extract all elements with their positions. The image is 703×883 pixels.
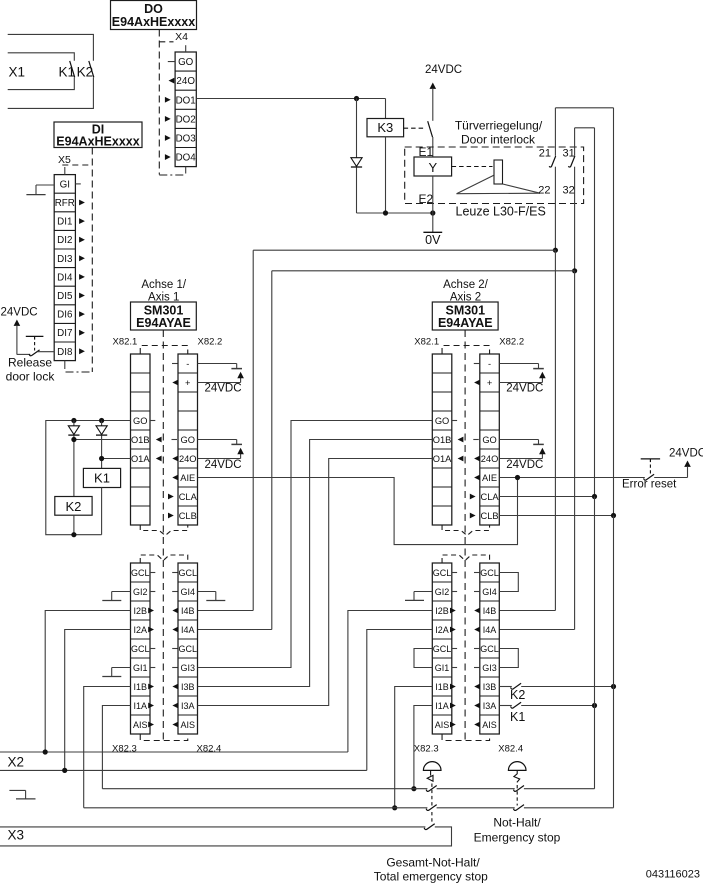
- svg-text:GCL: GCL: [131, 644, 150, 654]
- arrow pin DI7: [79, 330, 85, 336]
- label Error reset: [622, 479, 677, 491]
- pin arrow O1A axis 2: [458, 456, 464, 462]
- svg-text:DI3: DI3: [57, 254, 73, 265]
- svg-text:X4: X4: [175, 31, 188, 43]
- connector X1 loop inner wire: [8, 53, 75, 90]
- svg-text:I2B: I2B: [435, 606, 449, 616]
- reference bar GI2 axis2: [405, 592, 432, 601]
- svg-text:CLB: CLB: [179, 511, 197, 521]
- terminal strip X82.4 axis 1: [178, 563, 198, 734]
- wire DO1 to K3: [196, 98, 385, 100]
- wire axis2 GO to axis1 GI3: [198, 421, 433, 668]
- contact K3 in 24VDC line: [404, 121, 433, 137]
- wire I1B axis2 to emergency row2: [395, 687, 433, 808]
- supply 24VDC plus axis 1: [198, 372, 244, 395]
- svg-text:I1A: I1A: [435, 701, 449, 711]
- pin arrow I4A X82.4 axis 2: [474, 627, 480, 633]
- labels X82.1 X82.2 axis 2: [414, 337, 524, 348]
- pin tick GI4 X82.4 axis 2: [474, 591, 479, 593]
- emergency row2 wire: [84, 807, 614, 809]
- mushroom button total emergency stop: [423, 762, 441, 824]
- svg-text:+: +: [487, 378, 492, 388]
- svg-text:K3: K3: [377, 120, 393, 135]
- relay coil K1: [83, 468, 120, 534]
- label Achse 2 / Axis 2: [443, 279, 489, 304]
- labels X82.3 X82.4 axis 1: [112, 744, 221, 755]
- supply 24VDC error reset: [669, 448, 703, 478]
- pin tick GI2 X82.3 axis 1: [150, 591, 155, 593]
- svg-text:I3B: I3B: [483, 682, 497, 692]
- pin arrow I3A X82.4 axis 2: [474, 703, 480, 709]
- svg-text:DI7: DI7: [57, 328, 72, 339]
- svg-text:Achse 2/: Achse 2/: [443, 279, 489, 291]
- module SM301 E94AYAE axis 1: [131, 302, 197, 330]
- diode V2: [68, 421, 79, 497]
- wire I2B axis1 to X2: [45, 611, 130, 753]
- svg-text:043116023: 043116023: [646, 869, 700, 881]
- arrow pin DI5: [79, 293, 85, 299]
- svg-text:GO: GO: [435, 416, 449, 426]
- svg-text:GI2: GI2: [435, 587, 450, 597]
- pin arrow I2B X82.3 axis 1: [148, 608, 154, 614]
- label Tuerverriegelung Door interlock: [455, 119, 543, 147]
- svg-text:GO: GO: [133, 416, 147, 426]
- contact row2 button2: [514, 805, 525, 811]
- svg-text:24O: 24O: [176, 76, 195, 87]
- wire CLA axis2 to loop B: [499, 496, 594, 498]
- module SM301 E94AYAE axis 2: [432, 302, 498, 330]
- pin tick GO X82.1 axis 1: [150, 420, 155, 422]
- pin tick GI3 X82.4 axis 1: [172, 667, 177, 669]
- svg-text:K2: K2: [77, 65, 94, 80]
- svg-text:DI5: DI5: [57, 291, 73, 302]
- svg-text:24VDC: 24VDC: [204, 459, 241, 471]
- svg-text:CLA: CLA: [481, 492, 500, 502]
- svg-text:GI2: GI2: [133, 587, 148, 597]
- bridge GCL-GI3 axis2: [499, 649, 518, 668]
- pin arrow I1A X82.3 axis 1: [148, 703, 154, 709]
- wire safety loop B right leg: [594, 128, 596, 497]
- junction I1B row2: [392, 805, 397, 810]
- wire axis2 O1A to axis1 I3A: [198, 459, 433, 706]
- svg-text:X82.2: X82.2: [499, 337, 524, 348]
- pin arrow O1B axis 1: [156, 437, 162, 443]
- pin tick GCL X82.3 axis 2: [452, 648, 457, 650]
- svg-text:GI: GI: [60, 179, 70, 190]
- dashed centre line axis 1: [162, 330, 164, 740]
- relay coil K3: [367, 99, 404, 214]
- svg-text:GI4: GI4: [180, 587, 195, 597]
- dashed outline bottom X82.3/X82.4 axis 2: [442, 734, 490, 741]
- svg-text:AIS: AIS: [180, 720, 195, 730]
- svg-text:Türverriegelung/: Türverriegelung/: [455, 119, 543, 133]
- svg-text:DO2: DO2: [176, 114, 196, 125]
- pin arrow AIS X82.3 axis 1: [148, 722, 154, 728]
- svg-text:Door interlock: Door interlock: [461, 133, 536, 147]
- svg-text:32: 32: [563, 185, 575, 197]
- pin arrow I1B X82.3 axis 1: [148, 684, 154, 690]
- svg-text:Y: Y: [428, 160, 437, 175]
- arrow pin RFR: [79, 200, 85, 206]
- svg-text:K2: K2: [65, 499, 81, 514]
- bus X2 wire a: [0, 751, 348, 753]
- dashed outline bottom X82.3/X82.4 axis 1: [140, 734, 188, 741]
- label Leuze L30-F/ES: [456, 205, 546, 219]
- svg-text:GCL: GCL: [433, 568, 452, 578]
- wire 22 leg to axis2 I4B: [499, 250, 555, 610]
- supply 24VDC 24O axis 1: [198, 448, 244, 471]
- pin tick GI1 X82.3 axis 2: [452, 667, 457, 669]
- pin arrow AIS X82.3 axis 2: [450, 722, 456, 728]
- terminal strip X82.3 axis 1: [131, 563, 151, 734]
- contact K1: [59, 61, 76, 80]
- svg-text:Error reset: Error reset: [622, 479, 677, 491]
- svg-text:I4B: I4B: [483, 606, 497, 616]
- dashed module boundary X4: [159, 30, 184, 176]
- relay coil K2: [55, 497, 92, 535]
- junction AIE: [515, 475, 520, 480]
- svg-text:I1A: I1A: [133, 701, 147, 711]
- label Release door lock: [6, 356, 56, 384]
- svg-text:DI2: DI2: [57, 235, 72, 246]
- supply tap minus axis 1: [198, 364, 243, 369]
- dashed break below X82.1/X82.2 axis 2: [442, 525, 490, 536]
- svg-text:GI4: GI4: [482, 587, 497, 597]
- svg-text:O1B: O1B: [433, 435, 452, 445]
- svg-text:0V: 0V: [425, 233, 441, 247]
- pin tick GCL X82.3 axis 2: [452, 572, 457, 574]
- svg-text:E94AxHExxxx: E94AxHExxxx: [112, 15, 195, 29]
- svg-text:31: 31: [563, 148, 575, 160]
- reference bar near X2: [9, 790, 35, 799]
- junction K3 rail: [383, 210, 388, 215]
- svg-text:O1A: O1A: [131, 454, 150, 464]
- wire I1A axis2 to emergency row1: [414, 706, 432, 789]
- pushbutton Release door lock: [17, 336, 54, 355]
- svg-text:X82.1: X82.1: [414, 337, 439, 348]
- junction X2a axis1: [43, 749, 48, 754]
- arrow pin 24O: [169, 78, 175, 84]
- supply 24VDC door circuit: [425, 64, 462, 121]
- bridge GCL-GI1 axis2: [414, 649, 432, 668]
- svg-text:X82.3: X82.3: [414, 744, 439, 755]
- wire I1A axis1 to emergency row1: [102, 706, 130, 789]
- solenoid Y with terminals E1 E2: [414, 145, 452, 206]
- contact Error reset: [644, 474, 688, 480]
- junction GO diode2: [99, 418, 104, 423]
- terminal strip X82.2 axis 1: [178, 354, 198, 525]
- svg-text:Emergency stop: Emergency stop: [474, 831, 561, 845]
- svg-text:DO4: DO4: [176, 153, 197, 164]
- supply tap GO axis 2: [499, 440, 544, 445]
- svg-text:Gesamt-Not-Halt/: Gesamt-Not-Halt/: [386, 856, 480, 870]
- svg-text:X5: X5: [58, 154, 71, 166]
- svg-text:I3A: I3A: [181, 701, 195, 711]
- svg-text:I4A: I4A: [483, 625, 497, 635]
- label Gesamt-Not-Halt Total emergency stop: [374, 856, 488, 883]
- label Not-Halt Emergency stop: [474, 816, 561, 845]
- svg-text:GI1: GI1: [133, 663, 148, 673]
- reference bar at GI: [26, 185, 54, 195]
- svg-text:Leuze L30-F/ES: Leuze L30-F/ES: [456, 205, 546, 219]
- svg-text:21: 21: [539, 148, 551, 160]
- pin tick GCL X82.3 axis 1: [150, 648, 155, 650]
- arrow pin DO1: [165, 97, 171, 103]
- svg-text:24O: 24O: [179, 454, 197, 464]
- junction tap contact 22: [553, 248, 558, 253]
- svg-text:Not-Halt/: Not-Halt/: [493, 816, 541, 830]
- bus X2 wire b: [0, 769, 367, 771]
- junction X2b axis1: [62, 768, 67, 773]
- junction K2 return rail: [71, 532, 76, 537]
- terminal strip X82.1 axis 1: [131, 354, 151, 525]
- door interlock dashed enclosure: [405, 147, 584, 204]
- document number: [646, 869, 700, 881]
- svg-text:DO: DO: [144, 2, 163, 16]
- svg-text:24VDC: 24VDC: [204, 383, 241, 395]
- pin tick GCL X82.4 axis 2: [474, 648, 479, 650]
- supply tap GO axis 1: [198, 440, 243, 445]
- svg-text:GCL: GCL: [178, 568, 197, 578]
- svg-text:-: -: [186, 359, 189, 369]
- arrow pin DO3: [165, 135, 171, 141]
- svg-text:AIS: AIS: [482, 720, 497, 730]
- wire I1B axis1 to emergency row2: [84, 687, 131, 808]
- contact 31-32: [563, 148, 575, 197]
- svg-text:K1: K1: [59, 65, 76, 80]
- svg-text:24VDC: 24VDC: [506, 383, 543, 395]
- pin arrow I4A X82.4 axis 1: [172, 627, 178, 633]
- pin arrow I3B X82.4 axis 1: [172, 684, 178, 690]
- junction I3A loopB: [592, 703, 597, 708]
- pin arrow I2B X82.3 axis 2: [450, 608, 456, 614]
- svg-text:GO: GO: [482, 435, 496, 445]
- svg-text:GI3: GI3: [180, 663, 195, 673]
- svg-text:I3B: I3B: [181, 682, 195, 692]
- pin tick GCL X82.4 axis 2: [474, 572, 479, 574]
- svg-text:GI3: GI3: [482, 663, 497, 673]
- svg-text:24O: 24O: [481, 454, 499, 464]
- wire O1B axis1: [74, 439, 131, 441]
- svg-text:GCL: GCL: [433, 644, 452, 654]
- pin arrow AIS X82.4 axis 1: [172, 722, 178, 728]
- svg-text:I2A: I2A: [435, 625, 449, 635]
- wire safety loop A right leg: [613, 108, 615, 516]
- pin arrow O1A axis 1: [156, 456, 162, 462]
- pin tick GI1 X82.3 axis 1: [150, 667, 155, 669]
- svg-text:GCL: GCL: [480, 568, 499, 578]
- svg-text:-: -: [488, 359, 491, 369]
- ground 0V: [423, 232, 442, 247]
- pin tick minus X82.2 axis 1: [172, 363, 178, 365]
- svg-text:CLA: CLA: [179, 492, 198, 502]
- svg-text:DI8: DI8: [57, 347, 73, 358]
- arrow pin DO2: [165, 116, 171, 122]
- svg-text:Release: Release: [8, 356, 52, 370]
- svg-text:X2: X2: [8, 755, 25, 770]
- pin arrow AIE axis 2: [474, 475, 480, 481]
- svg-text:CLB: CLB: [481, 511, 499, 521]
- svg-text:DO1: DO1: [176, 95, 196, 106]
- pin arrow CLA axis 2: [470, 494, 476, 500]
- pin tick GI4 X82.4 axis 1: [172, 591, 177, 593]
- svg-text:Total emergency stop: Total emergency stop: [374, 870, 488, 883]
- pin arrow I1A X82.3 axis 2: [450, 703, 456, 709]
- module DO E94AxHExxxx: [111, 1, 197, 30]
- svg-text:X82.4: X82.4: [498, 744, 523, 755]
- wire 0V drop: [432, 213, 434, 232]
- dashed break above X82.3/X82.4 axis 2: [442, 555, 490, 563]
- labels X82.3 X82.4 axis 2: [414, 744, 523, 755]
- pin arrow I2A X82.3 axis 2: [450, 627, 456, 633]
- bus X3 wire a with total emergency contact: [0, 824, 452, 846]
- contact 21-22: [538, 148, 555, 197]
- wire I3A axis2 with contact K1: [499, 702, 594, 724]
- pin tick GI2 X82.3 axis 2: [452, 591, 457, 593]
- pin arrow I2A X82.3 axis 1: [148, 627, 154, 633]
- label X1: [9, 65, 26, 80]
- label X5: [58, 154, 71, 166]
- svg-text:X82.1: X82.1: [113, 337, 138, 348]
- svg-text:+: +: [185, 378, 190, 388]
- wire loop B lower leg: [594, 497, 596, 789]
- supply tap minus axis 2: [499, 364, 544, 369]
- pin arrow CLB axis 2: [470, 513, 476, 519]
- wire safety loop B top: [575, 128, 595, 271]
- pin tick minus X82.2 axis 2: [474, 363, 480, 365]
- pin tick GCL X82.3 axis 1: [150, 572, 155, 574]
- contact row1 button1: [426, 786, 437, 792]
- svg-text:O1B: O1B: [131, 435, 150, 445]
- svg-text:22: 22: [538, 185, 550, 197]
- terminal strip X4: [168, 45, 197, 173]
- svg-text:I2A: I2A: [133, 625, 147, 635]
- svg-text:AIS: AIS: [435, 720, 450, 730]
- pin arrow 24O axis 2: [474, 456, 480, 462]
- junction O1A diode2 coil K1: [99, 456, 104, 461]
- svg-text:24VDC: 24VDC: [669, 448, 703, 460]
- arrow pin DI1: [79, 218, 85, 224]
- terminal strip X82.1 axis 2: [432, 354, 452, 525]
- svg-text:I2B: I2B: [133, 606, 147, 616]
- connector X1 loop outer wire: [8, 34, 94, 108]
- terminal strip X5: [54, 167, 81, 369]
- svg-text:GO: GO: [181, 435, 195, 445]
- pin tick GO X82.2 axis 2: [473, 439, 479, 441]
- wire GO axis1 to coil return rail: [46, 421, 131, 535]
- pushbutton cap error reset: [641, 459, 660, 474]
- pin tick GCL X82.4 axis 1: [172, 648, 177, 650]
- wire K3 bottom rail to 0V node: [357, 212, 433, 214]
- svg-text:DI6: DI6: [57, 310, 73, 321]
- svg-text:GO: GO: [178, 57, 194, 68]
- svg-text:X82.3: X82.3: [112, 744, 137, 755]
- arrow pin DI6: [79, 311, 85, 317]
- pin tick GI3 X82.4 axis 2: [474, 667, 479, 669]
- svg-text:X1: X1: [9, 65, 26, 80]
- terminal strip X82.3 axis 2: [432, 563, 452, 734]
- bridge GCL-GI4 axis2: [499, 573, 518, 592]
- pin arrow AIE axis 1: [172, 475, 178, 481]
- svg-text:K1: K1: [94, 471, 110, 486]
- supply 24VDC for release switch: [1, 307, 38, 355]
- pin tick GCL X82.4 axis 1: [172, 572, 177, 574]
- wire loop A lower leg: [613, 516, 615, 808]
- wire 32 leg to axis2 I4A: [499, 271, 574, 630]
- svg-text:I1B: I1B: [133, 682, 147, 692]
- diode across K3: [351, 99, 362, 214]
- svg-text:Achse 1/: Achse 1/: [141, 279, 187, 291]
- reference bar GI4 axis1: [198, 592, 226, 601]
- arrow pin DI4: [79, 274, 85, 280]
- svg-text:DI4: DI4: [57, 272, 73, 283]
- junction O1B diode1 coil K2: [71, 437, 76, 442]
- diode V3: [96, 421, 107, 469]
- supply 24VDC 24O axis 2: [499, 448, 545, 471]
- junction I1A row1: [411, 786, 416, 791]
- pin arrow I1B X82.3 axis 2: [450, 684, 456, 690]
- junction tap contact 32: [572, 268, 577, 273]
- label Achse 1 / Axis 1: [141, 279, 187, 304]
- supply 24VDC plus axis 2: [499, 372, 545, 395]
- pin arrow plus axis 1: [172, 380, 178, 386]
- pin arrow CLA axis 1: [168, 494, 174, 500]
- svg-text:AIE: AIE: [180, 473, 195, 483]
- svg-text:I4A: I4A: [181, 625, 195, 635]
- arrow pin DI8: [79, 348, 85, 354]
- dashed outline X82.1/X82.2 axis 2: [442, 346, 490, 355]
- arrow pin DO4: [165, 154, 171, 160]
- dashed break above X82.3/X82.4 axis 1: [140, 555, 188, 563]
- junction CLB loopA: [611, 513, 616, 518]
- svg-text:GI1: GI1: [435, 663, 450, 673]
- dashed centre line axis 2: [464, 330, 466, 740]
- svg-text:E94AYAE: E94AYAE: [438, 316, 493, 330]
- wire contact to solenoid E1: [432, 137, 434, 157]
- svg-text:24VDC: 24VDC: [425, 64, 462, 76]
- wire axis2 O1B to axis1 I3B: [198, 440, 433, 687]
- pin arrow I3A X82.4 axis 1: [172, 703, 178, 709]
- svg-text:X82.4: X82.4: [197, 744, 222, 755]
- label X2: [8, 755, 25, 770]
- wire tap32 to axis1 I4A: [198, 271, 575, 630]
- interlock plunger and linkage: [452, 160, 540, 194]
- arrow pin DI3: [79, 255, 85, 261]
- wire safety loop A top: [555, 108, 613, 250]
- svg-text:DI1: DI1: [57, 217, 72, 228]
- contact row2 button1: [426, 805, 437, 811]
- svg-text:door lock: door lock: [6, 370, 56, 384]
- svg-text:O1A: O1A: [433, 454, 452, 464]
- svg-text:24VDC: 24VDC: [1, 307, 38, 319]
- svg-text:DO3: DO3: [176, 133, 197, 144]
- mushroom button emergency stop: [508, 762, 526, 806]
- svg-text:GCL: GCL: [178, 644, 197, 654]
- wire AIE axis1 to axis2: [198, 478, 518, 545]
- svg-text:I4B: I4B: [181, 606, 195, 616]
- arrow pin DI2: [79, 237, 85, 243]
- wire I3B axis2 with contact K2: [499, 683, 613, 702]
- svg-text:RFR: RFR: [55, 198, 75, 209]
- svg-text:X82.2: X82.2: [198, 337, 223, 348]
- terminal strip X82.2 axis 2: [480, 354, 500, 525]
- svg-text:E2: E2: [419, 192, 434, 206]
- pin tick GO X82.1 axis 2: [452, 420, 457, 422]
- pin arrow CLB axis 1: [168, 513, 174, 519]
- svg-text:24VDC: 24VDC: [506, 459, 543, 471]
- pin tick GO X82.2 axis 1: [172, 439, 178, 441]
- wire AIE axis2 to error reset: [499, 477, 645, 479]
